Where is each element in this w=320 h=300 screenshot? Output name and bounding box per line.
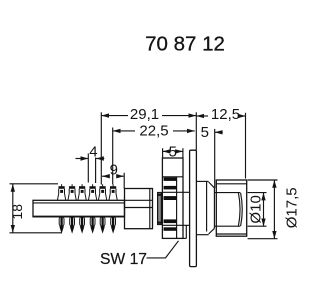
bushing shaft silhouette lines [162, 191, 189, 193]
dim diameter 10 [248, 192, 267, 194]
SW 17 leader line [147, 241, 179, 258]
knob inner rim lines [216, 183, 246, 185]
svg-text:SW 17: SW 17 [100, 251, 147, 268]
switch body [125, 189, 153, 229]
svg-text:22,5: 22,5 [139, 122, 168, 139]
bushing thread zone top line [162, 176, 183, 178]
lower pin slots and tips [59, 217, 115, 234]
body shaft lines [125, 199, 153, 201]
svg-text:Ø17,5: Ø17,5 [284, 187, 301, 228]
dim 5 right extension down to collar [214, 129, 216, 188]
bar bottom heavy line [34, 215, 125, 217]
bar inner top line [33, 202, 125, 204]
upper pin caps row [59, 186, 117, 193]
dim 9 right extension down to body [123, 173, 125, 189]
dim 18 vertical at far left [12, 184, 14, 233]
dim 22,5 left extension down to last pin [112, 128, 114, 185]
panel face extension line (right end of 29,1 / 22,5 / left of 12,5 and 5) [195, 112, 197, 150]
shaft silhouette in knob [215, 192, 241, 194]
threaded bushing [162, 158, 183, 238]
knob skirt cylinder [216, 180, 246, 236]
svg-text:4: 4 [89, 144, 97, 161]
svg-text:9: 9 [110, 162, 118, 179]
lower solder pins [59, 217, 115, 234]
svg-text:5: 5 [169, 143, 177, 160]
dim 18 bottom extension [10, 232, 63, 234]
svg-text:70 87 12: 70 87 12 [145, 32, 225, 55]
dim 5 bushing extension lines [162, 148, 164, 157]
dim 9 [102, 175, 107, 177]
bushing inner vertical line [176, 177, 178, 239]
nut behind panel bottom [185, 225, 187, 238]
svg-text:5: 5 [201, 124, 209, 141]
grey spacer between body and bushing [158, 193, 162, 225]
body right inner line [149, 189, 151, 229]
dim 5 right arrow (outside pointing left) [215, 131, 223, 133]
contact bar (wafer shaft) [33, 200, 125, 217]
svg-text:18: 18 [9, 204, 25, 220]
lower pin eyelets [59, 217, 115, 226]
mounting panel plate [190, 150, 197, 266]
dim 22,5 [113, 130, 135, 132]
upper solder pins [57, 184, 117, 200]
dim 12,5 right extension down to knob [245, 113, 247, 179]
dim 29,1 left extension to pin [100, 112, 102, 184]
shaft end arcs [241, 193, 243, 226]
dim 4 (pin pitch) [76, 158, 89, 160]
collar washer behind panel [196, 180, 208, 182]
dim diameter 17,5 [248, 179, 278, 181]
svg-text:Ø10: Ø10 [247, 195, 264, 223]
dim 5 over bushing [163, 150, 170, 152]
svg-text:12,5: 12,5 [211, 106, 240, 123]
svg-text:29,1: 29,1 [130, 106, 159, 123]
upper pin stems and legs [57, 184, 117, 200]
dim 4 extension lines [87, 154, 89, 183]
dim 18 top extension [10, 183, 59, 185]
thread marks [164, 177, 177, 231]
dim 29,1 line row [101, 115, 128, 117]
dim 12,5 [196, 115, 208, 117]
